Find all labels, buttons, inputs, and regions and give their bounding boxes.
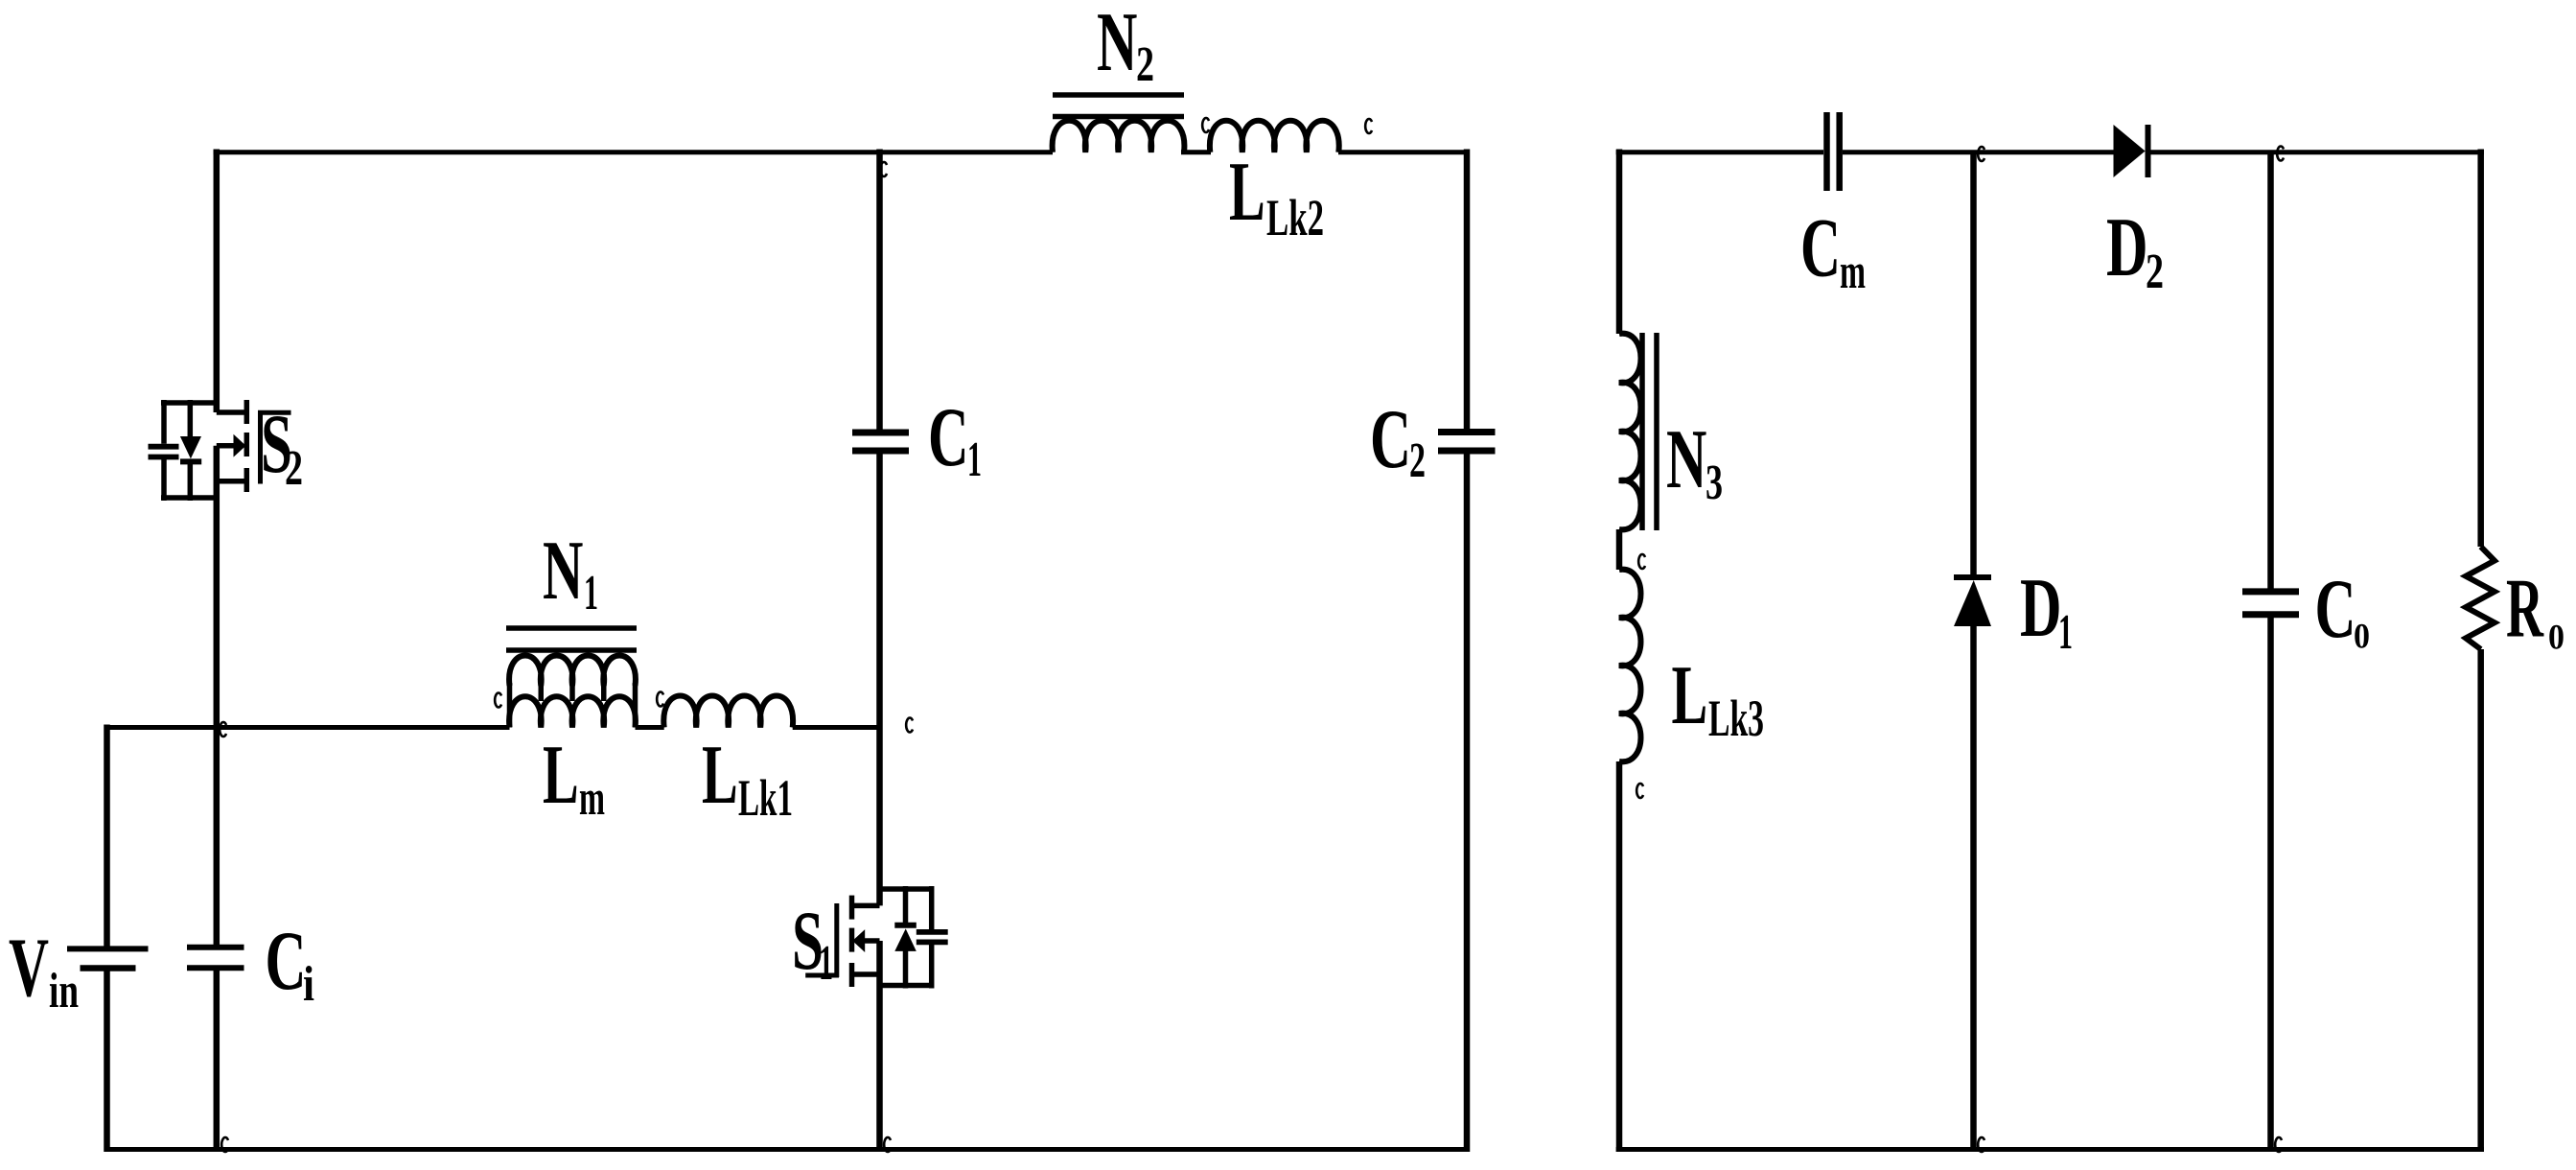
svg-text:2: 2 bbox=[1409, 433, 1426, 488]
capacitor Ci plates bbox=[187, 945, 244, 950]
wire: D1 branch vertical lower bbox=[1970, 626, 1977, 1152]
S1 body diode branch wire bbox=[903, 886, 909, 924]
svg-text:2: 2 bbox=[1136, 37, 1154, 92]
svg-text:C: C bbox=[1800, 202, 1841, 295]
capacitor Co plates bbox=[2242, 588, 2299, 595]
S2 gate lead (overline of label) bbox=[258, 410, 291, 415]
coil end curl at N2/LLk2 gap bbox=[1202, 118, 1209, 132]
svg-text:m: m bbox=[579, 771, 605, 826]
wire: C2 branch vertical lower bbox=[1464, 454, 1471, 1152]
wire: left circuit bottom rail bbox=[104, 1147, 1471, 1152]
svg-text:D: D bbox=[2106, 201, 2148, 294]
S1 channel bar segments bbox=[849, 896, 855, 920]
battery Vin plates bbox=[67, 946, 149, 951]
svg-text:3: 3 bbox=[1706, 456, 1723, 510]
label Lm bbox=[543, 729, 605, 826]
svg-text:L: L bbox=[702, 729, 738, 822]
svg-text:2: 2 bbox=[2146, 245, 2164, 299]
svg-text:N: N bbox=[543, 525, 583, 618]
wire: Co branch vertical lower bbox=[2267, 615, 2274, 1152]
svg-text:C: C bbox=[1370, 393, 1411, 486]
wire: middle horizontal rail bbox=[104, 725, 510, 730]
coil end curl left of Lm bbox=[495, 693, 501, 708]
inductor N2 winding bumps bbox=[1053, 121, 1185, 152]
S1 gate lead (underline of label) bbox=[805, 973, 839, 978]
wire: left main vertical lower (below Ci) bbox=[214, 971, 220, 1152]
S2 snubber capacitor branch wire bbox=[161, 400, 167, 444]
wire: top rail between N2 and LLk2 bbox=[1181, 150, 1211, 154]
inductor LLk2 winding bumps bbox=[1210, 121, 1339, 152]
curl at bottom rail / D1 branch junction bbox=[1978, 1137, 1984, 1152]
curl at bottom rail / main branch junction bbox=[221, 1137, 228, 1152]
wire: Vin branch vertical upper bbox=[104, 725, 110, 948]
label D1 bbox=[2020, 562, 2073, 660]
S1 source horizontal bbox=[852, 971, 880, 977]
S1 snubber capacitor plates bbox=[917, 929, 948, 935]
curl at Co branch top junction bbox=[2277, 147, 2284, 161]
S1 main vertical between bulk and loop bottom bbox=[876, 941, 883, 1152]
S2 body diode triangle bbox=[180, 436, 201, 458]
curl at bottom rail / S1 branch junction bbox=[884, 1137, 891, 1152]
curl at bottom rail / Co branch junction bbox=[2275, 1137, 2282, 1152]
Lm winding end stubs bbox=[507, 683, 513, 728]
svg-text:L: L bbox=[1672, 649, 1708, 742]
wire: Vin branch vertical lower bbox=[104, 971, 110, 1153]
curl at D1 branch top junction bbox=[1978, 147, 1984, 161]
transformer core bars of N2 bbox=[1053, 92, 1184, 98]
S2 main vertical between bulk and below bbox=[214, 446, 220, 945]
wire: D1 branch vertical upper bbox=[1970, 152, 1977, 574]
svg-text:in: in bbox=[49, 964, 79, 1018]
transformer winding N3 bumps bbox=[1619, 334, 1641, 530]
S2 bulk arrow bbox=[217, 443, 235, 449]
label N1 bbox=[543, 525, 598, 620]
capacitor Cm plates bbox=[1823, 112, 1830, 191]
svg-text:Lk3: Lk3 bbox=[1708, 690, 1764, 747]
transformer winding N1 / inductor Lm (two-row winding) bbox=[506, 628, 637, 728]
svg-text:1: 1 bbox=[584, 566, 598, 620]
svg-text:C: C bbox=[266, 915, 307, 1008]
svg-text:0: 0 bbox=[2354, 618, 2370, 657]
svg-text:1: 1 bbox=[2058, 605, 2073, 660]
curl at middle rail / main branch junction bbox=[220, 722, 226, 737]
diode D1 triangle bbox=[1954, 580, 1991, 626]
S1 drain horizontal bbox=[852, 903, 880, 909]
wire: S1/C1 branch vertical from C1 to S1 bbox=[876, 454, 883, 905]
label Cm bbox=[1800, 202, 1866, 300]
coil end curl below N3 bbox=[1638, 554, 1645, 569]
wire: top rail from LLk2 to right corner bbox=[1338, 150, 1470, 154]
S2 snubber capacitor plates bbox=[149, 444, 179, 450]
wire: top rail from Cm to D2 bbox=[1843, 150, 2114, 154]
wire: S1/C1 branch vertical from top rail to C1 bbox=[876, 150, 883, 431]
coil end curl between Lm and LLk1 bbox=[657, 692, 663, 707]
svg-text:i: i bbox=[303, 957, 314, 1012]
svg-text:L: L bbox=[543, 729, 579, 822]
label LLk3 bbox=[1672, 649, 1765, 747]
transformer core bars of N1 bbox=[506, 625, 637, 631]
wire: left main vertical (S2 branch) upper bbox=[214, 150, 220, 413]
svg-text:1: 1 bbox=[819, 936, 833, 991]
wire: left circuit top rail bbox=[214, 150, 1054, 154]
Lm lower row bumps on middle rail bbox=[509, 696, 636, 727]
diode D1 cathode bar bbox=[1954, 574, 1991, 580]
S1 gate bar bbox=[834, 903, 839, 977]
coil end curl below LLk3 bbox=[1636, 784, 1643, 798]
S1 body diode cathode bar bbox=[894, 923, 917, 928]
S2 drain horizontal bbox=[217, 409, 246, 415]
S1 bulk arrow bbox=[863, 938, 880, 944]
label S2 with overbar bbox=[261, 398, 303, 496]
transistor S1 (MOSFET with body diode and snubber cap) bbox=[805, 886, 948, 1152]
curl at C1 branch top junction bbox=[880, 162, 887, 176]
capacitor C2 plates bbox=[1438, 429, 1496, 435]
svg-text:V: V bbox=[9, 922, 49, 1015]
label C2 bbox=[1370, 393, 1426, 488]
svg-text:1: 1 bbox=[967, 433, 982, 487]
S2 gate bar bbox=[258, 410, 263, 484]
svg-text:C: C bbox=[928, 391, 969, 484]
label N3 bbox=[1666, 413, 1723, 510]
label LLk2 bbox=[1229, 146, 1324, 246]
coil end curl at LLk2 right end bbox=[1365, 119, 1372, 133]
svg-text:Lk2: Lk2 bbox=[1266, 189, 1324, 246]
label Vin bbox=[9, 922, 79, 1018]
S1 body diode triangle bbox=[894, 928, 917, 951]
wire: between N3 and LLk3 bbox=[1616, 529, 1623, 570]
wire: Ro branch vertical upper bbox=[2477, 150, 2484, 548]
resistor Ro zigzag bbox=[2466, 547, 2495, 649]
label Co bbox=[2315, 563, 2371, 657]
svg-text:0: 0 bbox=[2548, 619, 2564, 658]
wire: right circuit bottom rail bbox=[1616, 1147, 2484, 1152]
label Ro bbox=[2506, 563, 2564, 658]
S1 loop top connector bbox=[880, 886, 932, 892]
svg-text:N: N bbox=[1097, 0, 1137, 89]
svg-text:R: R bbox=[2506, 563, 2544, 656]
S2 body diode cathode bar bbox=[180, 458, 201, 464]
wire: Ro branch vertical lower bbox=[2477, 649, 2484, 1152]
label D2 bbox=[2106, 201, 2164, 299]
coil end curl right of LLk1 bbox=[906, 718, 913, 733]
wire: right circuit left vertical below LLk3 bbox=[1616, 761, 1623, 1152]
label C1 bbox=[928, 391, 982, 487]
svg-text:L: L bbox=[1229, 146, 1265, 239]
svg-text:Lk1: Lk1 bbox=[738, 769, 793, 827]
wire: C2 branch vertical upper bbox=[1464, 150, 1471, 431]
Lm upper row cusp tails bbox=[539, 685, 545, 701]
inductor LLk3 bumps bbox=[1619, 570, 1641, 762]
label S1 bbox=[792, 895, 833, 991]
S2 loop top connector bbox=[161, 400, 217, 406]
S1 snubber capacitor branch wire bbox=[929, 886, 935, 929]
S2 channel bar segments bbox=[244, 400, 250, 424]
svg-text:D: D bbox=[2020, 562, 2062, 655]
label LLk1 bbox=[702, 729, 793, 827]
svg-text:m: m bbox=[1840, 245, 1866, 299]
wire: Co branch vertical upper bbox=[2267, 152, 2274, 592]
diode D2 triangle bbox=[2114, 125, 2146, 177]
S2 loop bottom connector bbox=[161, 495, 217, 501]
wire: right circuit top rail (left part to Cm) bbox=[1616, 150, 1823, 154]
S1 loop bottom connector bbox=[880, 983, 932, 989]
Lm upper row bumps bbox=[509, 656, 636, 687]
wire: top rail from D2 to right corner bbox=[2151, 150, 2484, 154]
svg-text:2: 2 bbox=[285, 441, 303, 496]
diode D2 cathode bar bbox=[2146, 125, 2151, 177]
wire: right circuit left vertical above N3 bbox=[1616, 150, 1623, 335]
inductor LLk1 winding bumps bbox=[663, 696, 793, 728]
svg-text:N: N bbox=[1666, 413, 1706, 506]
label N2 bbox=[1097, 0, 1154, 92]
S2 source horizontal bbox=[217, 479, 246, 484]
capacitor C1 plates bbox=[852, 430, 909, 436]
label Ci bbox=[266, 915, 315, 1012]
transformer core bars of N3 bbox=[1639, 333, 1645, 530]
S2 body diode branch wire bbox=[188, 400, 194, 437]
svg-text:C: C bbox=[2315, 563, 2356, 656]
transistor S2 (MOSFET with body diode and snubber cap) bbox=[149, 400, 291, 945]
